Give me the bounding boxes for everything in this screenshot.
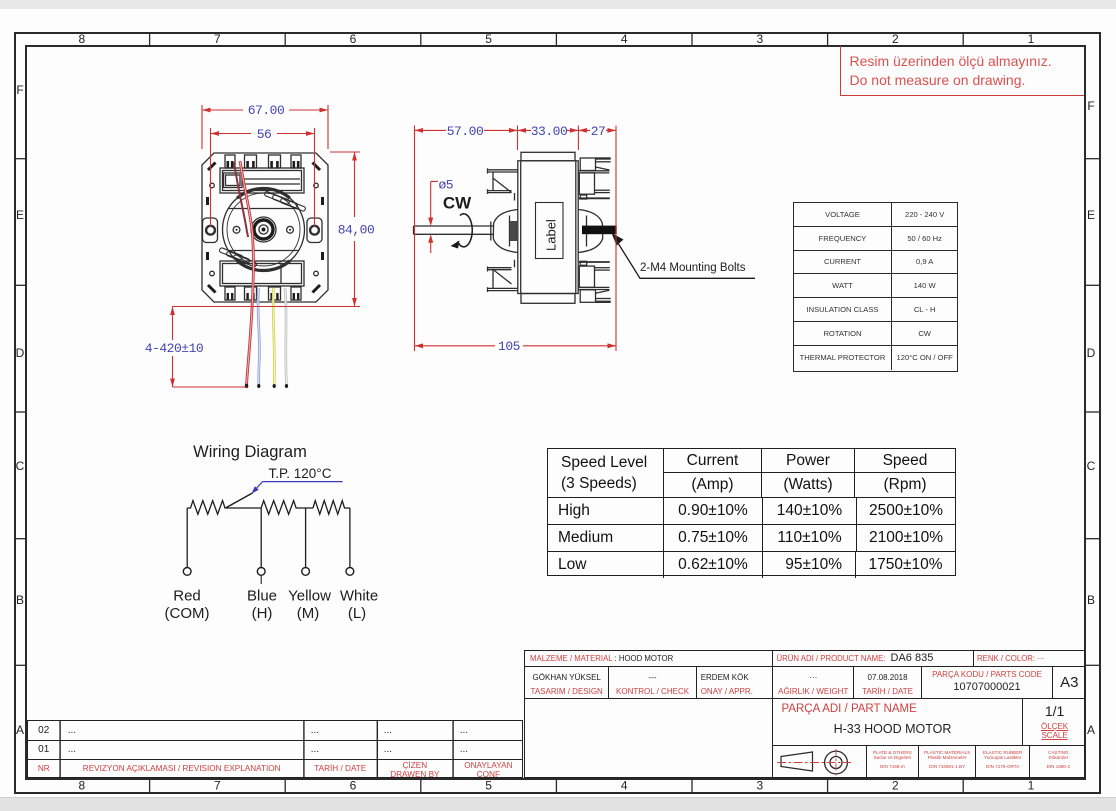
winding end-turn slats top-right [264,191,306,212]
svg-text:Blue: Blue [247,588,277,605]
dimension ø5 shaft [428,181,438,253]
svg-text:B: B [1087,593,1095,607]
wire end dots [245,384,288,388]
page background bottom band [0,797,1116,811]
mounting ear right [307,218,322,243]
shaft [414,226,494,234]
wire Red drop (COM lead) [186,508,188,568]
dimension 56 [211,128,315,227]
bottom winding block [220,261,304,286]
warning note box [840,46,1084,96]
terminal labels [165,588,379,623]
dimension 4-420±10 (lead lengths) [170,307,247,388]
dimension chain 57.00 / 33.00 / 27 [415,126,617,352]
projection circles [825,751,848,774]
mounting bolt (black) [582,226,617,235]
terminal COM (Red) [183,568,191,576]
svg-text:A: A [16,723,24,737]
svg-text:7: 7 [214,779,221,793]
svg-text:D: D [1087,346,1096,360]
svg-text:4-420±10: 4-420±10 [145,341,203,356]
svg-text:3: 3 [756,32,763,46]
maroon wire strand [234,162,248,237]
svg-text:(COM): (COM) [165,605,210,622]
svg-text:T.P. 120°C: T.P. 120°C [269,466,332,481]
title block [524,650,1085,778]
winding end-turn slats bottom-left [219,247,257,267]
motor body outline (front view) [202,153,328,302]
svg-text:67.00: 67.00 [248,103,285,118]
motor body (side view) [518,152,578,303]
side dash marks [208,197,323,260]
stator bore circle [227,193,300,266]
stator fins top-right [578,158,610,199]
svg-text:F: F [1087,99,1094,113]
rotor outer circle [223,189,305,271]
svg-text:33.00: 33.00 [531,124,568,139]
winding resistor W1 (Red-H) [187,501,261,515]
svg-text:B: B [16,593,24,607]
winding resistor W3 (M-L) [313,501,350,515]
svg-text:1: 1 [1028,779,1035,793]
title row 2: design/check/appr/weight/date/parts code/A3 [525,667,1084,699]
top winding block [220,168,304,193]
svg-text:27: 27 [591,124,606,139]
stator fins bottom-left [487,260,518,292]
corner dash marks [208,163,320,293]
bearing screws left/right of hub [233,226,293,233]
title row 4: projection + standards cells [772,746,1086,779]
svg-text:2: 2 [892,32,899,46]
2-M4 leader arrow [612,233,756,278]
left bearing bell [491,210,518,253]
svg-text:84,00: 84,00 [338,223,375,238]
terminal H (Blue) [257,568,265,576]
terminal M (Yellow) [302,568,310,576]
blue terminal stub [260,575,262,584]
wire White drop (L lead) [349,508,351,568]
winding resistor W2 (H-M) [261,501,313,515]
terminal L (White) [346,568,354,576]
svg-text:4: 4 [621,32,628,46]
svg-text:C: C [1087,459,1096,473]
svg-text:A: A [1087,723,1095,737]
svg-text:Label: Label [544,219,559,251]
svg-text:F: F [16,83,23,97]
T.P. leader line (blue) [252,482,343,494]
stator fins top-left [487,168,518,200]
mounting ear left [203,218,218,243]
svg-text:Yellow: Yellow [288,588,331,605]
svg-text:ø5: ø5 [439,178,454,193]
projection cone [781,752,813,771]
svg-text:1: 1 [1028,32,1035,46]
small screw holes [210,183,319,276]
red lead wire (front view) [240,161,253,385]
svg-text:(L): (L) [348,605,366,622]
svg-text:3: 3 [756,779,763,793]
projection crosshairs (red) [777,749,851,776]
stator fins bottom-right [578,261,610,302]
speed/performance table [547,448,956,576]
left bell hub (dark) [510,221,518,241]
revision table [27,720,523,779]
right bearing bell [578,210,603,253]
svg-text:(M): (M) [297,605,320,622]
svg-text:6: 6 [350,32,357,46]
svg-text:D: D [16,346,25,360]
revision table column lines [28,721,522,777]
wire Blue drop (H lead) [260,508,262,568]
title row 3: part name [772,699,1086,746]
svg-text:5: 5 [485,32,492,46]
motor specification table [793,202,958,372]
title row 1: material / product name / color [525,651,1084,667]
dimension 105 [415,343,617,348]
svg-text:White: White [340,588,378,605]
shaft hub circles [251,217,276,242]
svg-text:E: E [16,208,24,222]
stator pole chords [228,209,298,251]
svg-text:2-M4 Mounting Bolts: 2-M4 Mounting Bolts [640,262,746,274]
svg-text:56: 56 [257,127,272,142]
svg-text:CW: CW [443,194,472,213]
svg-text:2: 2 [892,779,899,793]
svg-text:C: C [16,459,25,473]
svg-text:(H): (H) [252,605,273,622]
svg-text:E: E [1087,208,1095,222]
svg-text:5: 5 [485,779,492,793]
projection symbol [765,744,865,778]
svg-text:57.00: 57.00 [447,124,484,139]
dimension 84,00 [173,152,361,307]
svg-text:Wiring Diagram: Wiring Diagram [193,443,307,461]
bottom terminal teeth [225,287,301,300]
svg-text:105: 105 [498,339,520,354]
svg-text:8: 8 [78,779,85,793]
label sticker [536,203,564,259]
thermal protector switch arm [226,493,253,508]
wire Yellow drop (M lead) [305,508,307,568]
svg-text:Red: Red [173,588,201,605]
page background top band [0,0,1116,9]
white lead wire [285,288,287,385]
yellow lead wire [273,288,274,385]
svg-text:4: 4 [621,779,628,793]
dimension 67.00 [202,105,328,149]
blue lead wire [258,288,260,385]
CW rotation arrow [451,214,473,249]
svg-text:6: 6 [350,779,357,793]
top terminal teeth [225,155,301,169]
svg-text:8: 8 [78,32,85,46]
svg-text:7: 7 [214,32,221,46]
